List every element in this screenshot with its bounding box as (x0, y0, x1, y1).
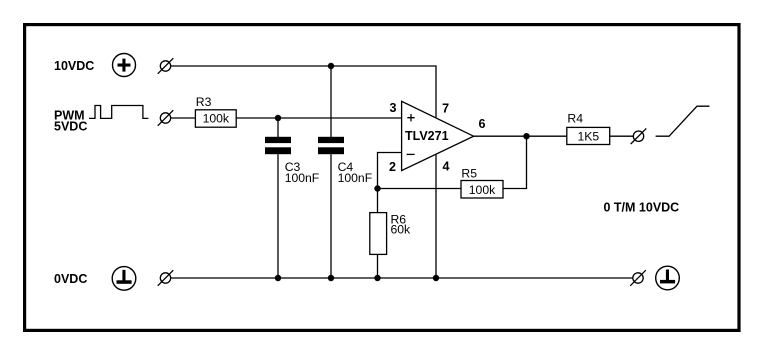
wire R6 bottom lead to 0V rail (377, 254, 379, 278)
terminal 0VDC left (158, 270, 174, 286)
node PWM 5VDC label (54, 108, 87, 133)
wire R3 to op-amp pin 3 (236, 117, 401, 119)
node output range label (604, 200, 680, 214)
junction output node (523, 133, 529, 139)
resistor R4 (567, 112, 610, 145)
junction C4 / 10VDC rail (328, 63, 334, 69)
pin 2 (389, 160, 396, 174)
terminal 10VDC input (158, 58, 174, 74)
node 10VDC label (54, 59, 94, 73)
wire R5 to output node (503, 136, 527, 188)
wire 0V rail (171, 277, 633, 279)
pin 3 (390, 101, 397, 115)
svg-text:1K5: 1K5 (577, 130, 599, 144)
svg-text:7: 7 (442, 102, 449, 116)
junction C3 / 0V rail (275, 275, 281, 281)
node 0VDC label (54, 272, 87, 286)
junction C4 / 0V rail (328, 275, 334, 281)
svg-text:6: 6 (479, 117, 486, 131)
pin 7 (442, 102, 449, 116)
wire pin 4 to 0V rail (435, 154, 437, 278)
wire C4 bottom lead to 0V rail (330, 154, 332, 278)
pwm waveform icon (89, 106, 148, 119)
ground symbol right (656, 266, 680, 290)
svg-text:10VDC: 10VDC (54, 59, 94, 73)
wire C3 top lead (277, 118, 279, 137)
power symbol +10V (113, 54, 136, 77)
svg-text:100nF: 100nF (285, 171, 320, 185)
resistor R6 (370, 213, 411, 255)
svg-text:TLV271: TLV271 (405, 129, 449, 143)
terminal 0VDC right (630, 270, 646, 286)
wire PWM terminal to R3 (171, 117, 195, 119)
junction feedback node (374, 185, 380, 191)
svg-text:100k: 100k (203, 112, 230, 126)
svg-text:4: 4 (443, 160, 450, 174)
terminal PWM input (158, 110, 174, 126)
svg-text:0 T/M 10VDC: 0 T/M 10VDC (604, 200, 680, 214)
wire C4 top lead to 10VDC rail (330, 66, 332, 137)
svg-text:100nF: 100nF (338, 171, 373, 185)
pin 4 (443, 160, 450, 174)
resistor R5 (461, 166, 503, 198)
svg-text:R4: R4 (567, 112, 583, 126)
junction pin4 / 0V rail (433, 275, 439, 281)
wire op-amp output to R4 (474, 135, 567, 137)
svg-text:0VDC: 0VDC (54, 272, 87, 286)
junction R6 / 0V rail (374, 275, 380, 281)
pin 6 (479, 117, 486, 131)
wire R4 to output terminal (610, 135, 634, 137)
svg-text:5VDC: 5VDC (54, 119, 87, 133)
svg-text:100k: 100k (469, 183, 496, 197)
ramp waveform icon (656, 106, 710, 136)
wire pin 2 to feedback node (378, 153, 402, 189)
capacitor C4 (318, 137, 372, 185)
wire feedback node to R5 (378, 188, 462, 190)
junction R3 / C3 (275, 115, 281, 121)
svg-text:2: 2 (389, 160, 396, 174)
wire R6 top lead (377, 189, 379, 213)
svg-text:R5: R5 (461, 166, 477, 180)
terminal analog output (631, 128, 647, 144)
capacitor C3 (265, 137, 319, 185)
svg-text:60k: 60k (391, 223, 412, 237)
svg-text:3: 3 (390, 101, 397, 115)
wire C3 bottom lead to 0V rail (277, 154, 279, 278)
wire 10VDC rail to pin 7 (171, 66, 436, 118)
resistor R3 (195, 95, 236, 127)
op-amp U1 TLV271 (402, 101, 474, 170)
ground symbol left (112, 267, 136, 291)
svg-text:R3: R3 (196, 95, 212, 109)
